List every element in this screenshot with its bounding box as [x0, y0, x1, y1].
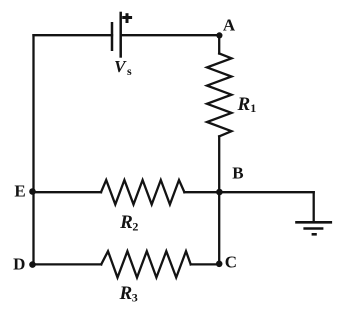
node A [216, 32, 222, 38]
svg-text:2: 2 [132, 219, 138, 233]
wire node D to R3 [34, 263, 102, 265]
battery plus sign [122, 13, 132, 23]
svg-text:R: R [236, 94, 250, 115]
wire node A down to R1 [218, 35, 220, 53]
wire node E to R2 [34, 191, 102, 193]
node D [29, 261, 36, 268]
wire R3 to node C [191, 263, 220, 265]
battery Vs positive plate [119, 12, 122, 58]
svg-text:R: R [119, 283, 133, 304]
wire R1 to node B [218, 136, 220, 192]
wire top-left horizontal (corner to battery) [34, 34, 113, 36]
svg-text:R: R [119, 212, 133, 233]
svg-text:s: s [127, 64, 132, 78]
ground bar 3 [312, 233, 317, 236]
svg-text:B: B [232, 163, 243, 182]
wire node B down to node C [218, 192, 220, 264]
resistor R3 [101, 251, 191, 277]
ground bar 2 [303, 227, 323, 230]
svg-text:1: 1 [250, 101, 256, 115]
resistor R1 [207, 54, 232, 137]
node E [29, 188, 36, 195]
battery Vs negative plate [111, 22, 114, 51]
node C [216, 261, 223, 268]
node B [216, 189, 223, 196]
svg-text:3: 3 [132, 291, 138, 305]
svg-text:E: E [14, 181, 25, 200]
resistor R2 [101, 180, 184, 204]
ground bar 1 [295, 221, 332, 224]
svg-text:A: A [223, 15, 236, 34]
svg-text:V: V [114, 57, 127, 76]
svg-text:D: D [13, 254, 25, 273]
wire left column (corner down through E to D) [32, 35, 34, 264]
wire battery to node A [121, 34, 220, 36]
wire R2 to node B and onward to ground drop [184, 191, 313, 193]
wire ground drop vertical [313, 192, 315, 222]
svg-text:C: C [225, 253, 237, 272]
